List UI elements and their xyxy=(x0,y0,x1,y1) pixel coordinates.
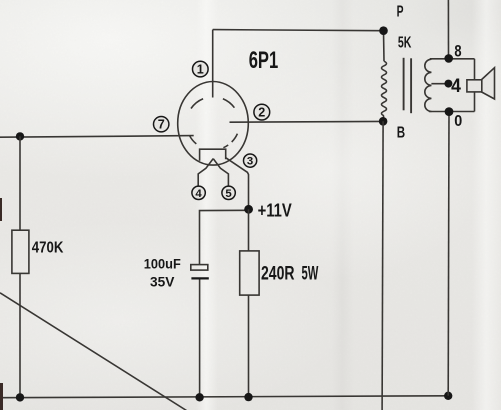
wire: 240R bottom to ground rail xyxy=(248,295,250,397)
transformer T1 secondary winding xyxy=(425,59,432,111)
node: secondary tap 4 xyxy=(444,80,452,88)
tube 6P1 heater filament V + lead to pin 4 xyxy=(198,159,213,187)
pin 2 xyxy=(254,104,270,120)
wire: P node down to primary coil xyxy=(383,31,386,62)
node: ground junction left xyxy=(16,393,24,401)
resistor 240R 5W body xyxy=(240,251,259,295)
wire: secondary 0 tap down to ground rail xyxy=(447,112,450,396)
wire: primary coil to node B xyxy=(382,116,384,122)
capacitor 100uF 35V negative plate xyxy=(191,277,208,279)
tube 6P1 inner electrode dashed arcs xyxy=(189,99,237,148)
wire: plate lead vertical xyxy=(212,30,214,98)
wire: +11V node to cathode cap corner xyxy=(200,210,249,264)
tube 6P1 heater lead to pin 5 xyxy=(213,159,228,187)
wire: bottom ground rail xyxy=(0,396,448,398)
transformer T1 primary winding 5K xyxy=(382,61,387,116)
wire: node to 240R top xyxy=(248,209,250,251)
node B xyxy=(379,117,388,126)
wire: grid pin 2 to node B xyxy=(230,120,384,123)
wire: plate top rail to P xyxy=(213,30,384,31)
transformer T1 core line right xyxy=(410,58,412,113)
speaker LS1 cone xyxy=(482,68,495,99)
transformer T1 core line left xyxy=(403,58,405,111)
resistor 470K body xyxy=(12,230,29,273)
pin 5 xyxy=(222,186,235,200)
pin 7 xyxy=(154,117,169,132)
wire: pin 7 horizontal from left edge xyxy=(0,136,194,138)
wire: secondary mid tap 4 xyxy=(431,83,448,85)
node: ground junction secondary 0 xyxy=(444,392,452,400)
wire: 470K lower lead to ground rail xyxy=(19,273,21,397)
node: secondary tap 0 xyxy=(445,107,454,116)
node: +11V junction xyxy=(244,205,253,214)
wire: speaker loop right vertical xyxy=(474,59,476,112)
tube 6P1 cathode box xyxy=(200,149,226,161)
wire: 470K upper lead xyxy=(19,136,21,230)
wire: secondary bottom horizontal xyxy=(429,111,475,113)
capacitor 100uF 35V positive plate xyxy=(191,265,208,271)
node: junction at 470K top xyxy=(16,132,24,140)
scan edge artifact bottom-left xyxy=(0,383,3,410)
pin 1 xyxy=(193,61,209,77)
pin 3 xyxy=(244,154,257,168)
wire: secondary top horizontal xyxy=(430,58,475,60)
wire: node B down to bottom edge xyxy=(382,121,383,410)
node: secondary tap 8 xyxy=(444,54,453,63)
tube U1 6P1 envelope xyxy=(178,82,249,166)
scan edge artifact mid-left xyxy=(0,198,2,221)
node: ground junction capacitor xyxy=(195,393,203,401)
node: ground junction 240R xyxy=(244,393,252,401)
wire: capacitor bottom to ground rail xyxy=(199,280,201,398)
node P xyxy=(379,26,388,35)
speaker LS1 driver body xyxy=(467,80,482,92)
wire: stray diagonal line (adjacent schematic) xyxy=(0,293,187,410)
pin 4 xyxy=(192,186,205,200)
wire: secondary 8 tap from top edge xyxy=(447,0,449,58)
wire: cathode pin 3 lead down to +11V node xyxy=(226,158,249,210)
